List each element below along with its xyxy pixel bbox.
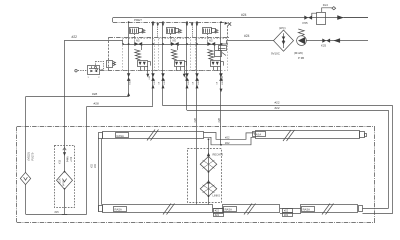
svg-text:#15: #15 <box>55 211 60 214</box>
svg-text:RASA: RASA <box>225 207 233 211</box>
svg-text:RECHTS: RECHTS <box>213 152 224 156</box>
svg-text:#24: #24 <box>244 34 250 38</box>
svg-text:K5C8: K5C8 <box>222 78 224 84</box>
svg-text:LINKS: LINKS <box>213 194 221 198</box>
svg-text:NG: NG <box>136 39 140 42</box>
svg-text:PX270: PX270 <box>31 152 35 160</box>
svg-text:(WC): (WC) <box>279 26 286 30</box>
svg-text:NG: NG <box>173 39 177 42</box>
svg-text:#22: #22 <box>225 135 230 139</box>
svg-text:#22: #22 <box>94 163 97 168</box>
svg-text:K5C8: K5C8 <box>154 78 156 84</box>
svg-text:K5C8: K5C8 <box>130 78 132 84</box>
svg-text:#24: #24 <box>241 13 247 17</box>
svg-text:P44A: P44A <box>67 156 70 162</box>
svg-text:NG: NG <box>209 39 213 42</box>
svg-text:(M122): (M122) <box>27 152 31 160</box>
svg-text:#22: #22 <box>275 101 280 105</box>
svg-text:K55: K55 <box>303 21 309 25</box>
svg-text:+#72: +#72 <box>71 156 73 162</box>
svg-text:#22: #22 <box>284 210 289 213</box>
svg-text:DL3: DL3 <box>323 3 329 7</box>
svg-text:#28: #28 <box>92 92 97 96</box>
svg-text:#28: #28 <box>217 118 221 123</box>
svg-text:#22: #22 <box>284 214 289 217</box>
svg-text:#21A: #21A <box>59 178 62 184</box>
svg-text:#15: #15 <box>58 159 61 164</box>
svg-text:(M126): (M126) <box>294 51 303 55</box>
svg-text:#22: #22 <box>215 210 220 213</box>
svg-text:RASA: RASA <box>254 132 262 136</box>
svg-text:K5C8: K5C8 <box>198 78 200 84</box>
svg-text:P 3B: P 3B <box>298 56 304 60</box>
svg-text:RASA: RASA <box>303 207 311 211</box>
svg-text:K25: K25 <box>321 43 327 47</box>
svg-text:RASA: RASA <box>117 134 125 138</box>
svg-text:K5C8: K5C8 <box>188 78 190 84</box>
svg-text:#28: #28 <box>94 102 99 106</box>
svg-text:(M13): (M13) <box>63 180 65 186</box>
svg-text:PRET: PRET <box>134 18 142 22</box>
svg-text:RASA: RASA <box>115 207 123 211</box>
svg-text:#22: #22 <box>215 214 220 217</box>
svg-text:#22: #22 <box>72 35 78 39</box>
svg-text:#22: #22 <box>275 106 280 110</box>
svg-text:#22: #22 <box>225 141 230 145</box>
svg-text:9V10C: 9V10C <box>271 52 280 56</box>
svg-text:#28: #28 <box>193 118 197 123</box>
svg-text:K5C8: K5C8 <box>164 78 166 84</box>
